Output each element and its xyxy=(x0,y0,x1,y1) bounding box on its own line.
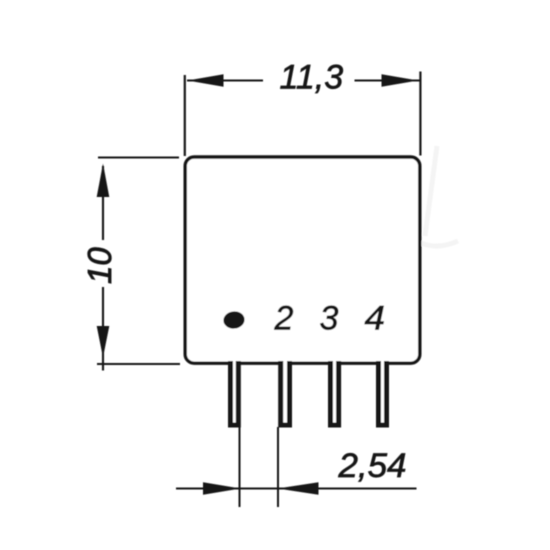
dimension 2,54 : left extension line xyxy=(239,427,241,507)
pin 3 (lead) xyxy=(331,361,339,425)
dimension 2,54 : left arrowhead (pointing right) xyxy=(203,482,241,495)
svg-text:10: 10 xyxy=(81,247,118,284)
dimension 2,54 : dimension line xyxy=(176,488,417,490)
dimension 11,3 : dimension line left segment xyxy=(187,79,263,81)
pin 1 (lead) xyxy=(231,361,239,425)
pin 4 (lead) xyxy=(379,361,387,425)
pin 2 (lead) xyxy=(281,361,290,425)
pin 1 marker dot xyxy=(223,310,246,329)
dimension 10 : top arrowhead xyxy=(97,164,110,198)
svg-text:3: 3 xyxy=(320,300,339,338)
svg-text:2: 2 xyxy=(274,300,294,338)
dimension 10 : upper dimension line xyxy=(102,166,104,240)
dimension 2,54 : right extension line xyxy=(277,427,279,507)
dimension 11,3 : right arrowhead xyxy=(382,74,419,87)
svg-text:4: 4 xyxy=(365,300,386,338)
dimension 10 : bottom arrowhead xyxy=(97,326,110,358)
dimension 10 : top extension line xyxy=(98,156,179,158)
dimension 10 : bottom extension line xyxy=(97,363,180,365)
dimension 10 : lower dimension line xyxy=(102,287,104,371)
component body U1 (package outline) xyxy=(185,157,420,363)
dimension 11,3 : left extension line xyxy=(184,75,186,156)
ghost bleed-through mark (faint) xyxy=(421,146,458,246)
svg-text:11,3: 11,3 xyxy=(280,59,344,97)
svg-text:2,54: 2,54 xyxy=(337,447,406,485)
dimension 11,3 : dimension line right segment xyxy=(355,79,420,81)
dimension 11,3 : right extension line xyxy=(419,72,421,156)
dimension 11,3 : left arrowhead xyxy=(188,74,224,87)
dimension 2,54 : right arrowhead (pointing left) xyxy=(278,482,319,495)
